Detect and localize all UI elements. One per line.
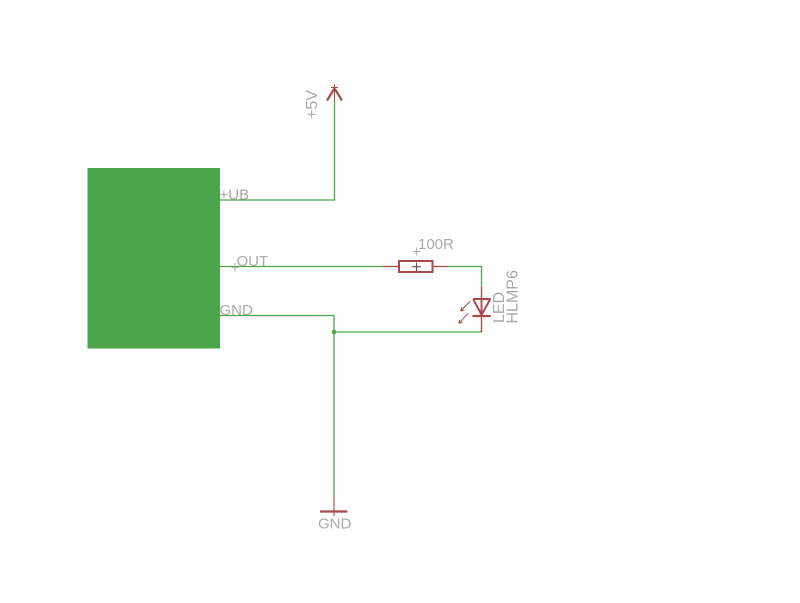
svg-text:+5V: +5V bbox=[304, 90, 321, 119]
svg-text:HLMP6: HLMP6 bbox=[505, 270, 522, 323]
svg-text:GND: GND bbox=[220, 302, 254, 319]
svg-text:GND: GND bbox=[318, 516, 352, 533]
svg-text:OUT: OUT bbox=[237, 253, 269, 270]
svg-text:100R: 100R bbox=[418, 236, 454, 253]
svg-text:+UB: +UB bbox=[220, 187, 250, 204]
